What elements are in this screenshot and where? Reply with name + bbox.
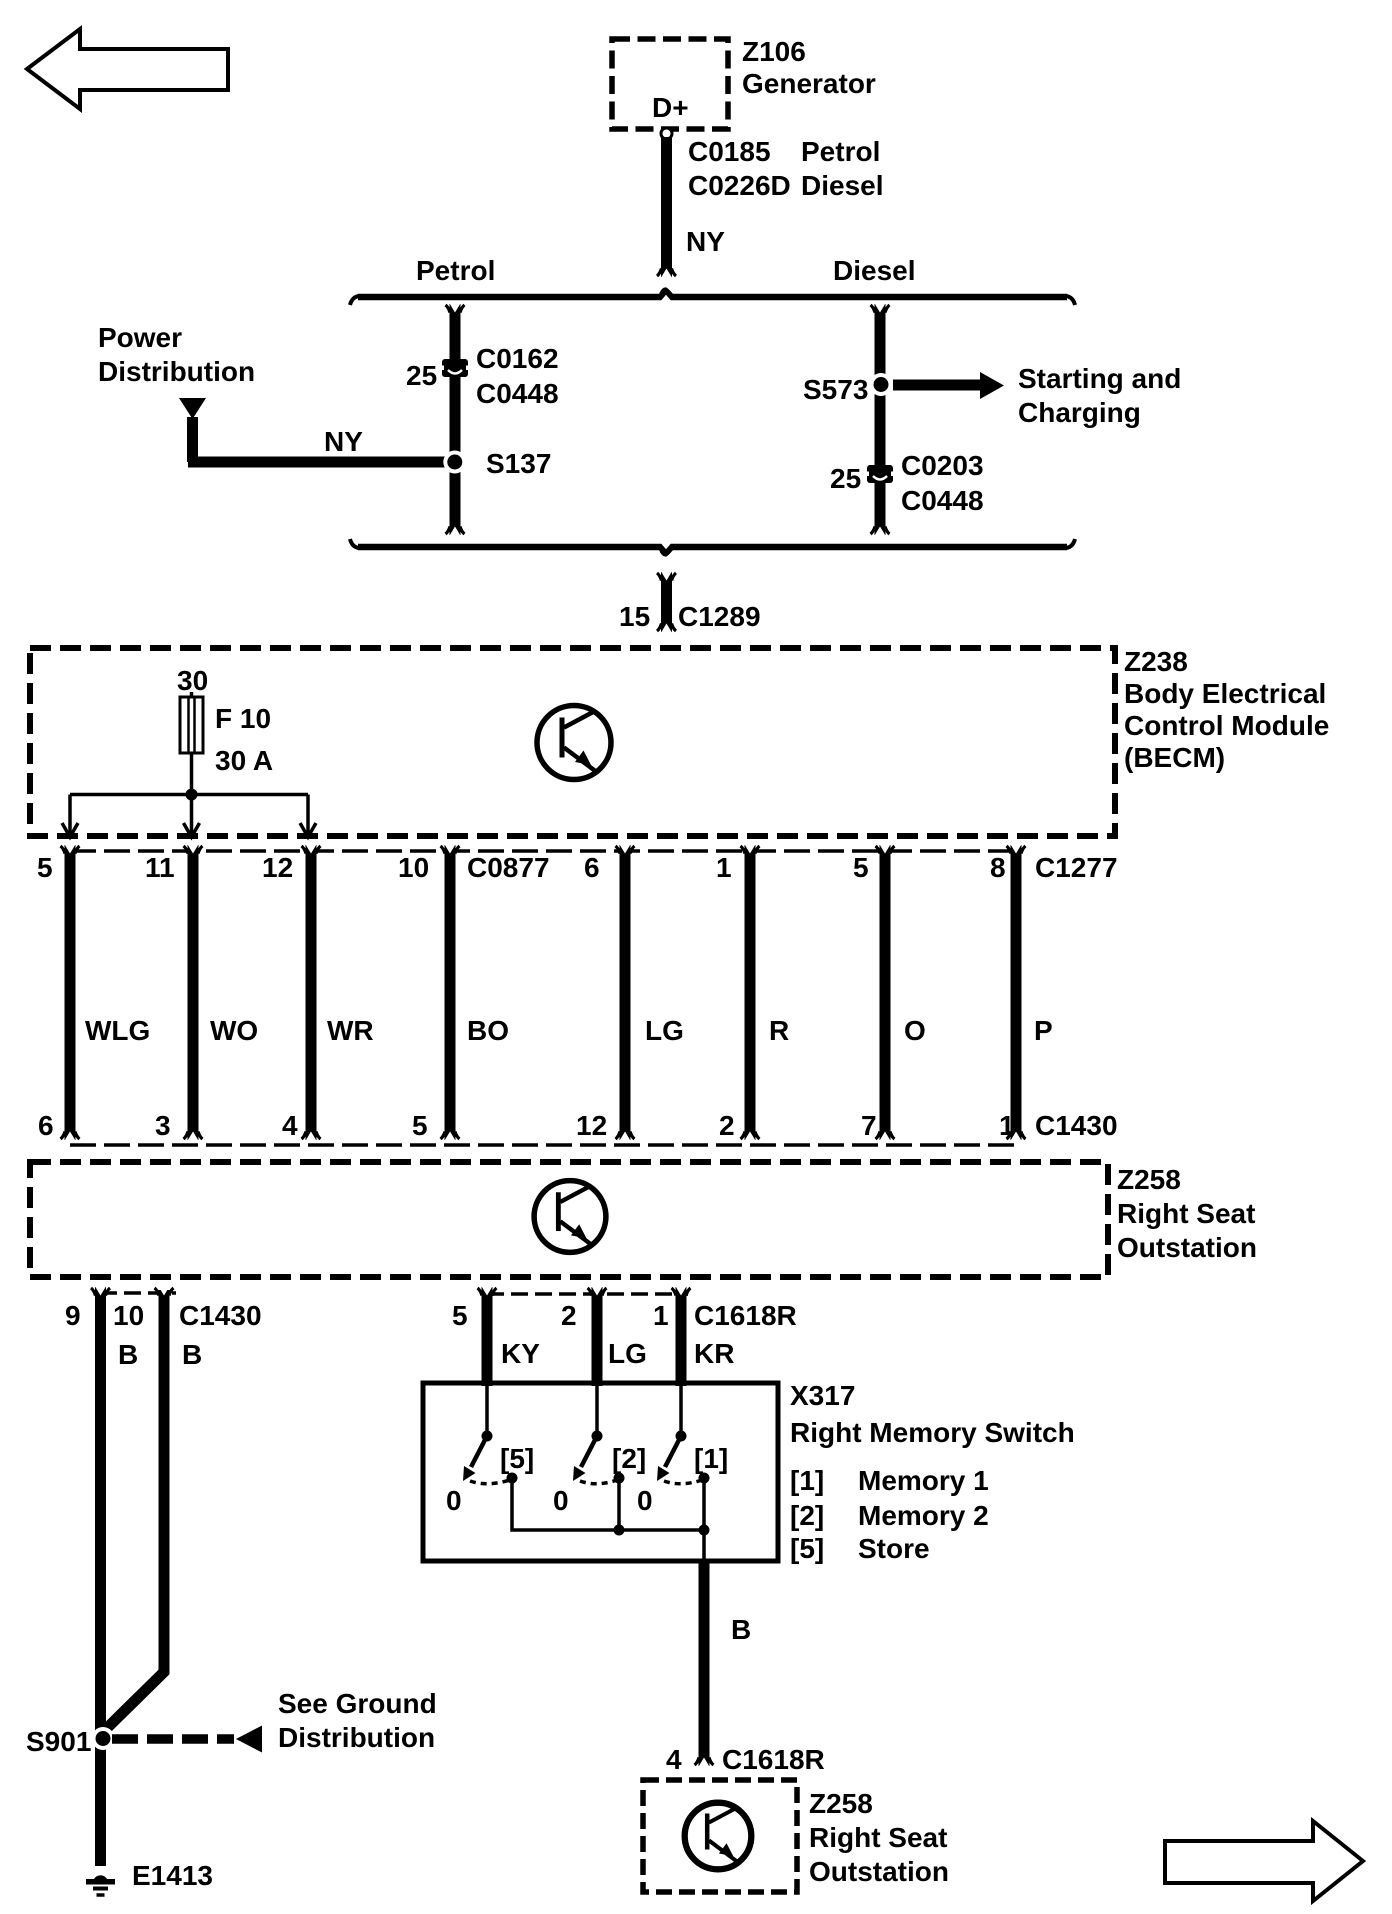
wire diesel branch <box>871 303 890 536</box>
svg-text:Starting and: Starting and <box>1018 363 1181 394</box>
wire O pin5-7 <box>876 844 895 1141</box>
svg-text:LG: LG <box>608 1338 647 1369</box>
splice S901 <box>92 1727 115 1750</box>
svg-text:Z106: Z106 <box>742 36 806 67</box>
svg-text:S901: S901 <box>26 1726 91 1757</box>
wire BO pin10-5 <box>441 844 460 1141</box>
svg-text:P: P <box>1034 1015 1053 1046</box>
svg-text:C0162: C0162 <box>476 343 559 374</box>
svg-text:0: 0 <box>553 1485 569 1516</box>
svg-text:4: 4 <box>666 1744 682 1775</box>
module Z258 Right Seat Outstation dashed box <box>30 1162 1108 1277</box>
switch X317 Right Memory Switch box <box>423 1383 778 1561</box>
svg-text:Petrol: Petrol <box>416 255 495 286</box>
svg-text:D+: D+ <box>652 92 689 123</box>
svg-text:O: O <box>904 1015 926 1046</box>
splice S573 <box>870 373 893 396</box>
arrow to pin 12 <box>300 823 316 837</box>
svg-text:Z258: Z258 <box>809 1788 873 1819</box>
svg-text:Store: Store <box>858 1533 930 1564</box>
svg-text:25: 25 <box>830 463 861 494</box>
svg-text:(BECM): (BECM) <box>1124 742 1225 773</box>
generator Z106 dashed box <box>612 39 728 129</box>
wire internal distribution <box>70 795 308 835</box>
wire P pin8-1 <box>1007 844 1026 1141</box>
svg-text:C1277: C1277 <box>1035 852 1118 883</box>
fuse F 10 30 A <box>180 692 203 753</box>
svg-text:Z258: Z258 <box>1117 1164 1181 1195</box>
svg-text:F 10: F 10 <box>215 703 271 734</box>
connector C0162/C0448 inline (25) <box>440 359 471 377</box>
svg-text:12: 12 <box>576 1110 607 1141</box>
svg-text:25: 25 <box>406 360 437 391</box>
wire bottom bus <box>350 539 1075 557</box>
arrow to pin 5 <box>62 823 78 837</box>
svg-text:30: 30 <box>177 665 208 696</box>
svg-text:Diesel: Diesel <box>833 255 916 286</box>
svg-text:S137: S137 <box>486 448 551 479</box>
svg-text:5: 5 <box>853 852 869 883</box>
connector line C0877/C1277 <box>70 849 1016 853</box>
module Z258 Right Seat Outstation (lower) dashed box <box>643 1780 797 1892</box>
svg-text:3: 3 <box>155 1110 171 1141</box>
wire top bus (petrol/diesel feed) <box>350 287 1075 305</box>
svg-text:X317: X317 <box>790 1380 855 1411</box>
svg-text:B: B <box>731 1614 751 1645</box>
svg-text:Control Module: Control Module <box>1124 710 1329 741</box>
wire petrol branch <box>446 303 465 536</box>
wire NY to power distribution <box>187 417 455 468</box>
svg-text:Right Seat: Right Seat <box>809 1822 947 1853</box>
switch pole memory2 [2] <box>573 1385 625 1484</box>
svg-text:WLG: WLG <box>85 1015 150 1046</box>
wire LG pin6-12 <box>616 844 635 1141</box>
svg-text:Generator: Generator <box>742 68 876 99</box>
svg-text:10: 10 <box>113 1300 144 1331</box>
wire B pin10 to S901 <box>104 1286 174 1731</box>
svg-text:5: 5 <box>412 1110 428 1141</box>
off-page arrow (to next sheet) <box>1165 1821 1363 1901</box>
svg-text:4: 4 <box>282 1110 298 1141</box>
svg-text:[2]: [2] <box>790 1500 824 1531</box>
svg-text:KR: KR <box>694 1338 734 1369</box>
terminal ring at D+ <box>661 128 672 139</box>
svg-text:11: 11 <box>145 852 175 883</box>
svg-text:7: 7 <box>861 1110 877 1141</box>
svg-text:Memory 1: Memory 1 <box>858 1465 989 1496</box>
arrow to pin 11 <box>184 823 200 837</box>
svg-text:C1430: C1430 <box>1035 1110 1118 1141</box>
svg-text:C1430: C1430 <box>179 1300 262 1331</box>
wire to starting and charging <box>893 372 1004 399</box>
connector line C1430 (left pair) <box>100 1291 176 1295</box>
off-page pointer Power Distribution <box>179 398 206 419</box>
off-page pointer See Ground Distribution <box>236 1726 262 1753</box>
wire fuse output <box>190 753 194 794</box>
svg-text:[5]: [5] <box>790 1533 824 1564</box>
svg-text:Petrol: Petrol <box>801 136 880 167</box>
svg-text:5: 5 <box>452 1300 468 1331</box>
dashed wire to ground distribution <box>112 1734 234 1744</box>
svg-text:1: 1 <box>653 1300 669 1331</box>
svg-text:Right Memory Switch: Right Memory Switch <box>790 1417 1075 1448</box>
svg-text:WO: WO <box>210 1015 258 1046</box>
svg-text:1: 1 <box>999 1110 1015 1141</box>
wire WO pin11-3 <box>184 844 203 1141</box>
svg-text:LG: LG <box>645 1015 684 1046</box>
svg-text:[5]: [5] <box>500 1443 534 1474</box>
svg-text:Distribution: Distribution <box>278 1722 435 1753</box>
svg-text:10: 10 <box>398 852 429 883</box>
svg-text:30 A: 30 A <box>215 745 273 776</box>
connector line C1618R (trio) <box>487 1292 688 1296</box>
svg-text:2: 2 <box>719 1110 735 1141</box>
svg-text:WR: WR <box>327 1015 374 1046</box>
svg-text:15: 15 <box>619 601 650 632</box>
svg-text:E1413: E1413 <box>132 1860 213 1891</box>
svg-text:9: 9 <box>65 1300 81 1331</box>
switch pole memory1 [1] <box>657 1385 710 1484</box>
svg-text:[1]: [1] <box>694 1443 728 1474</box>
svg-text:0: 0 <box>637 1485 653 1516</box>
svg-text:Memory 2: Memory 2 <box>858 1500 989 1531</box>
svg-text:B: B <box>182 1339 202 1370</box>
off-page arrow (to previous sheet) <box>27 29 228 109</box>
svg-text:See Ground: See Ground <box>278 1688 437 1719</box>
svg-text:C0448: C0448 <box>901 485 984 516</box>
svg-text:C0448: C0448 <box>476 378 559 409</box>
svg-text:C0226D: C0226D <box>688 170 791 201</box>
svg-text:C1289: C1289 <box>678 601 761 632</box>
svg-text:5: 5 <box>37 852 53 883</box>
svg-text:1: 1 <box>716 852 732 883</box>
svg-text:12: 12 <box>262 852 293 883</box>
BECM internal symbol (transistor in circle) <box>537 706 611 780</box>
svg-text:KY: KY <box>501 1338 540 1369</box>
connector C0203/C0448 inline (25) <box>865 465 896 483</box>
wire NY from generator D+ <box>657 137 676 278</box>
svg-text:Charging: Charging <box>1018 397 1141 428</box>
Z258 lower internal symbol (transistor in circle) <box>685 1803 752 1870</box>
svg-text:[2]: [2] <box>612 1443 646 1474</box>
svg-text:Z238: Z238 <box>1124 646 1188 677</box>
svg-text:C1618R: C1618R <box>694 1300 797 1331</box>
ground E1413 <box>86 1875 115 1895</box>
wire LG pin2 <box>588 1286 607 1386</box>
wire WR pin12-4 <box>302 844 321 1141</box>
svg-text:8: 8 <box>990 852 1006 883</box>
svg-text:6: 6 <box>584 852 600 883</box>
svg-text:R: R <box>769 1015 789 1046</box>
svg-text:S573: S573 <box>803 374 868 405</box>
svg-text:C0185: C0185 <box>688 136 771 167</box>
svg-text:6: 6 <box>38 1110 54 1141</box>
Z258 internal symbol (transistor in circle) <box>534 1181 606 1253</box>
svg-text:C1618R: C1618R <box>722 1744 825 1775</box>
svg-text:Body Electrical: Body Electrical <box>1124 678 1326 709</box>
svg-text:[1]: [1] <box>790 1465 824 1496</box>
svg-text:C0203: C0203 <box>901 450 984 481</box>
svg-text:B: B <box>118 1339 138 1370</box>
svg-text:C0877: C0877 <box>467 852 550 883</box>
svg-text:Distribution: Distribution <box>98 356 255 387</box>
wire KR pin1 <box>672 1286 691 1386</box>
svg-text:BO: BO <box>467 1015 509 1046</box>
switch pole store [5] <box>463 1385 518 1484</box>
switch common bus <box>512 1478 710 1561</box>
wire C1289 to BECM <box>657 571 676 633</box>
wire KY pin5 <box>478 1286 497 1386</box>
svg-text:Diesel: Diesel <box>801 170 884 201</box>
svg-text:Outstation: Outstation <box>1117 1232 1257 1263</box>
connector line C1430 <box>70 1143 1016 1147</box>
module Z238 BECM dashed box <box>30 648 1115 836</box>
svg-text:NY: NY <box>686 226 725 257</box>
wire B from memory switch <box>695 1561 714 1767</box>
wire B pin9 to S901 to E1413 <box>91 1286 110 1866</box>
wire R pin1-2 <box>741 844 760 1141</box>
junction dot <box>186 789 198 801</box>
wire WLG pin5-6 <box>61 844 80 1141</box>
svg-text:0: 0 <box>446 1485 462 1516</box>
svg-text:2: 2 <box>561 1300 577 1331</box>
svg-text:Right Seat: Right Seat <box>1117 1198 1255 1229</box>
svg-text:Outstation: Outstation <box>809 1856 949 1887</box>
svg-text:NY: NY <box>324 426 363 457</box>
splice S137 <box>443 451 466 474</box>
svg-text:Power: Power <box>98 322 182 353</box>
